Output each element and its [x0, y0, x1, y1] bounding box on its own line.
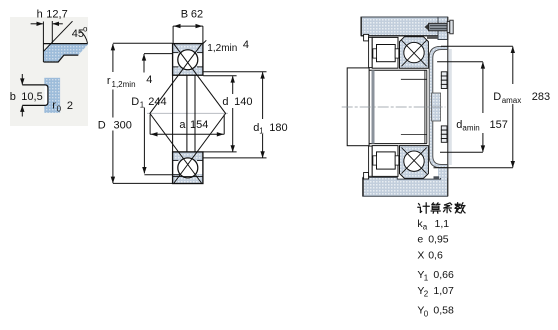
dimension d 140	[232, 76, 234, 94]
svg-text:2: 2	[424, 290, 429, 299]
contact angle line 1	[150, 44, 202, 183]
svg-text:d: d	[222, 96, 228, 108]
roller bearing bottom	[372, 146, 398, 177]
title (Chinese glyphs drawn)	[418, 203, 465, 213]
svg-text:0,95: 0,95	[428, 233, 449, 245]
svg-text:1: 1	[259, 127, 264, 136]
dimension d_amin 157	[437, 61, 483, 63]
clamp step under bolt	[427, 36, 438, 39]
shaft	[347, 68, 369, 146]
top section raceway lines	[173, 52, 179, 54]
dim arrows h	[31, 23, 43, 25]
dimension B 62	[173, 25, 203, 27]
housing right band lower	[438, 164, 448, 178]
horizontal centerline (gray)	[147, 112, 228, 114]
svg-text:o: o	[83, 25, 88, 34]
label 1,2min 4 (top right)	[203, 40, 206, 43]
label r 1,2min 4 + dimension D1 244 (left inner)	[144, 53, 172, 55]
angle arc 45	[80, 31, 87, 43]
groove shaded block	[44, 78, 60, 113]
svg-text:140: 140	[234, 96, 252, 108]
housing top band	[361, 17, 438, 36]
svg-text:a: a	[179, 119, 186, 131]
reference line 1	[42, 22, 44, 63]
svg-text:0: 0	[424, 309, 429, 318]
svg-text:157: 157	[490, 119, 508, 131]
centerline right figure	[342, 106, 446, 108]
svg-text:b: b	[10, 91, 16, 103]
svg-text:amax: amax	[502, 96, 522, 105]
svg-text:4: 4	[146, 74, 152, 86]
svg-text:10,5: 10,5	[21, 91, 42, 103]
housing left edge dark	[360, 17, 362, 36]
svg-text:h: h	[37, 8, 43, 20]
dimension d1 180	[262, 72, 264, 119]
nut stack top	[441, 72, 447, 89]
housing right band upper	[438, 17, 448, 40]
chamfer outline bottom	[44, 55, 79, 62]
svg-text:4: 4	[243, 39, 249, 51]
QJ bearing top (right fig)	[400, 37, 429, 68]
svg-text:283: 283	[532, 91, 550, 103]
svg-text:e: e	[417, 233, 423, 245]
recess corner bottom right	[434, 176, 440, 179]
cover plate centerline boss	[432, 93, 441, 121]
svg-text:1,2min: 1,2min	[112, 80, 136, 89]
bolt at top	[425, 24, 429, 31]
arrow down b	[21, 74, 23, 85]
svg-text:D: D	[98, 119, 106, 131]
groove notch (white)	[44, 85, 48, 106]
top ball	[178, 50, 198, 70]
dimension D_amax 283	[441, 45, 513, 47]
spacer ring top	[369, 37, 373, 67]
locating slot key bottom	[364, 173, 369, 180]
reference line 2	[51, 21, 53, 44]
svg-text:244: 244	[148, 96, 166, 108]
top bearing section fill	[173, 44, 203, 76]
svg-text:D: D	[493, 91, 501, 103]
cover plate with flange	[429, 46, 447, 167]
bottom section side gaps white	[173, 161, 178, 174]
svg-text:62: 62	[191, 9, 203, 21]
bottom bearing section fill	[173, 152, 203, 184]
svg-text:r: r	[107, 75, 111, 87]
QJ bearing bottom (right fig)	[400, 146, 429, 179]
svg-text:1,2min: 1,2min	[207, 43, 237, 54]
svg-text:154: 154	[190, 119, 208, 131]
locating slot key top	[364, 34, 369, 41]
shaft seat top line	[369, 69, 427, 71]
chamfer cross-section shaded shape	[44, 44, 89, 62]
arrow up b	[21, 106, 23, 117]
45 degree line	[44, 21, 73, 51]
svg-text:1,07: 1,07	[433, 285, 454, 297]
top section side gaps white	[173, 53, 178, 66]
bottom section raceway lines	[173, 159, 179, 161]
housing bottom band	[363, 169, 448, 197]
nut stack bottom	[441, 126, 447, 142]
svg-text:0,66: 0,66	[433, 269, 454, 281]
gap verticals	[172, 75, 174, 152]
dimension a 154	[149, 115, 151, 135]
bottom section outline	[173, 152, 203, 184]
svg-text:1: 1	[424, 274, 429, 283]
roller bearing top	[372, 37, 398, 68]
shoulder thick line	[372, 70, 375, 143]
shaft seat bottom line	[369, 143, 427, 145]
svg-text:amin: amin	[462, 124, 479, 133]
groove outline	[22, 85, 48, 106]
contact angle line 2	[174, 44, 226, 183]
dimension D 300 (left)	[112, 44, 114, 72]
svg-text:a: a	[423, 223, 428, 232]
bottom ball	[178, 158, 198, 178]
svg-text:0,6: 0,6	[428, 249, 443, 261]
svg-text:0: 0	[57, 104, 62, 113]
svg-text:12,7: 12,7	[46, 8, 67, 20]
housing top band bottom line	[361, 35, 438, 37]
svg-text:2: 2	[67, 100, 73, 112]
spacer ring bottom	[369, 146, 373, 176]
svg-text:300: 300	[114, 119, 132, 131]
svg-text:0,58: 0,58	[433, 305, 454, 317]
surface line	[43, 43, 87, 45]
svg-text:1,1: 1,1	[435, 218, 450, 230]
svg-text:D: D	[131, 96, 139, 108]
svg-text:180: 180	[269, 122, 287, 134]
top section outline	[173, 44, 203, 76]
svg-text:B: B	[181, 9, 188, 21]
sleeve lines	[401, 78, 427, 80]
housing right outer edge	[447, 17, 449, 196]
svg-text:X: X	[417, 249, 424, 261]
housing outer edge shading	[448, 49, 451, 165]
svg-text:1: 1	[140, 100, 145, 109]
gray backdrop panel behind detail views	[10, 17, 88, 126]
